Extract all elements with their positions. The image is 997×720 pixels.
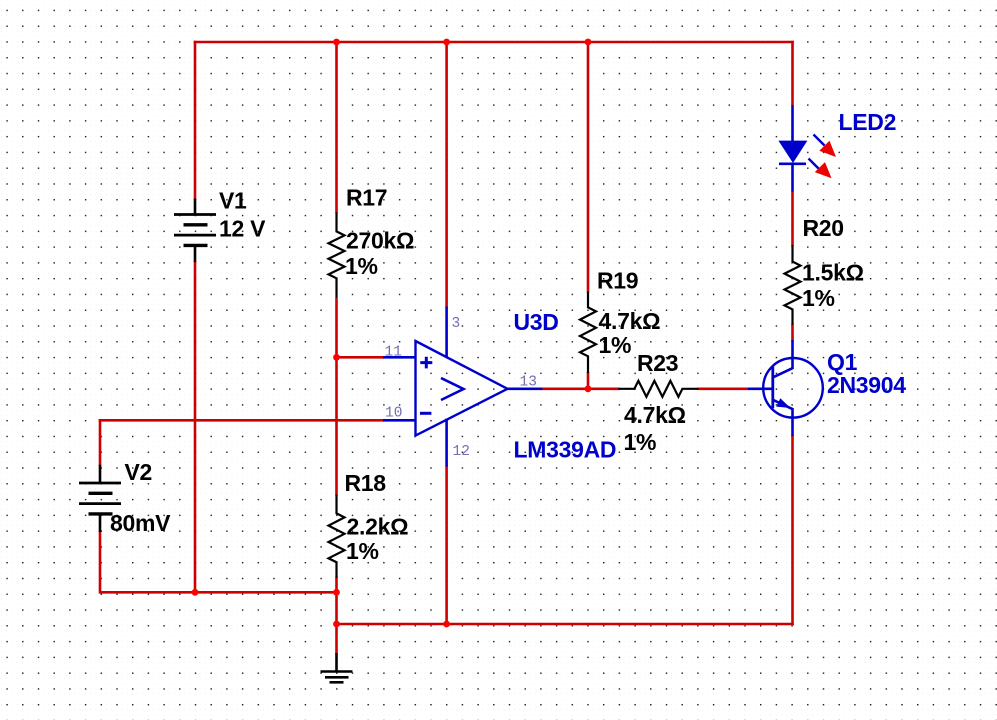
wire ground rail bottom	[337, 623, 794, 626]
wire R20 to Q1 collector	[791, 324, 794, 341]
wire output node to R23	[541, 387, 619, 390]
junction ground rail at R18	[333, 621, 340, 628]
wire inverting input from V2	[99, 419, 384, 422]
svg-text:LED2: LED2	[839, 109, 897, 135]
resistor R23	[618, 381, 698, 397]
svg-text:1%: 1%	[345, 253, 378, 279]
svg-text:R20: R20	[803, 215, 844, 241]
transistor Q1 circle	[763, 358, 823, 418]
comparator chevron	[441, 378, 464, 400]
svg-text:12 V: 12 V	[219, 216, 266, 242]
svg-text:1%: 1%	[599, 332, 632, 358]
wire LED2 anode from top rail	[791, 41, 794, 105]
wire pin12 to ground rail	[445, 466, 448, 626]
transistor Q1 collector wire	[791, 340, 794, 369]
svg-text:R23: R23	[637, 350, 678, 376]
battery V2	[99, 465, 102, 483]
wire R18 bottom to ground	[335, 577, 338, 655]
wire V1 top	[194, 41, 197, 200]
wire R17 top	[335, 41, 338, 214]
svg-text:4.7kΩ: 4.7kΩ	[624, 402, 686, 428]
op-amp U1 input stub pin 10	[383, 419, 416, 422]
svg-text:V1: V1	[219, 188, 247, 214]
op-amp U1 input stub pin 11	[383, 356, 416, 359]
resistor R19	[580, 292, 596, 373]
svg-text:1%: 1%	[802, 285, 835, 311]
LED2 light arrow 2 head	[815, 162, 832, 178]
transistor Q1 emitter arrowhead	[776, 398, 790, 408]
op-amp U1 output stub pin 13	[507, 387, 543, 390]
svg-text:R19: R19	[597, 268, 638, 294]
transistor Q1 collector diagonal	[773, 368, 793, 378]
op-amp U3D triangle	[416, 341, 508, 436]
wire R17 bottom to R18 top	[335, 298, 338, 495]
svg-text:U3D: U3D	[514, 309, 559, 335]
wire V2 bottom vertical	[99, 531, 102, 594]
LED2 cathode bar	[779, 163, 806, 166]
svg-text:3: 3	[452, 316, 461, 332]
op-amp U1 power stub pin 12	[445, 419, 448, 467]
junction top rail at R19	[585, 39, 592, 46]
op-amp plus sign	[420, 357, 432, 369]
svg-text:R18: R18	[345, 470, 387, 496]
svg-text:270kΩ: 270kΩ	[346, 228, 414, 254]
svg-text:2N3904: 2N3904	[827, 372, 906, 398]
junction R18 bottom rail	[333, 589, 340, 596]
junction top rail at R17	[333, 39, 340, 46]
wire top rail	[194, 41, 794, 44]
svg-text:4.7kΩ: 4.7kΩ	[599, 308, 661, 334]
svg-text:13: 13	[520, 374, 537, 390]
wire LED2 cathode to R20	[791, 191, 794, 246]
wire R19 bottom	[587, 372, 590, 390]
transistor Q1 emitter diagonal	[773, 400, 793, 410]
wire non-inverting input stub	[337, 356, 385, 359]
battery V1	[194, 199, 197, 215]
svg-text:1.5kΩ: 1.5kΩ	[802, 260, 864, 286]
resistor R20	[785, 245, 801, 325]
svg-text:1%: 1%	[346, 538, 379, 564]
svg-text:1%: 1%	[624, 429, 657, 455]
LED2 light arrow 2 shaft	[809, 159, 820, 170]
svg-text:R17: R17	[346, 185, 387, 211]
wire R19 top	[587, 41, 590, 293]
LED2 light arrow 1 head	[819, 141, 836, 157]
transistor Q1 emitter wire	[791, 408, 794, 436]
wire R23 to Q1 base	[697, 387, 749, 390]
LED2 triangle	[778, 141, 807, 163]
transistor Q1 base stub	[748, 387, 773, 390]
junction V1 bottom rail	[192, 589, 199, 596]
wire V1 bottom	[194, 261, 197, 592]
junction output node	[585, 385, 592, 392]
svg-text:11: 11	[385, 344, 402, 360]
resistor R17	[329, 212, 345, 298]
svg-text:V2: V2	[125, 459, 153, 485]
wire Q1 emitter down	[791, 435, 794, 625]
wire V2 top vertical	[99, 419, 102, 466]
ground	[335, 653, 338, 671]
svg-text:80mV: 80mV	[110, 510, 171, 536]
svg-text:LM339AD: LM339AD	[514, 437, 617, 463]
wire pin3 supply	[445, 41, 448, 308]
junction top rail at pin3	[443, 39, 450, 46]
svg-text:12: 12	[453, 444, 470, 460]
resistor R18	[329, 495, 345, 578]
wire V2 bottom rail	[100, 591, 338, 594]
op-amp minus sign	[420, 412, 431, 415]
LED2 light arrow 1 shaft	[814, 135, 825, 146]
svg-text:10: 10	[385, 406, 402, 422]
svg-text:2.2kΩ: 2.2kΩ	[347, 514, 409, 540]
junction non-inverting input node	[333, 354, 340, 361]
junction ground rail at pin12	[443, 621, 450, 628]
LED2 anode wire	[791, 105, 794, 142]
LED2 cathode wire	[791, 164, 794, 192]
transistor Q1 base bar	[771, 367, 774, 409]
op-amp U1 power stub pin 3	[445, 307, 448, 358]
